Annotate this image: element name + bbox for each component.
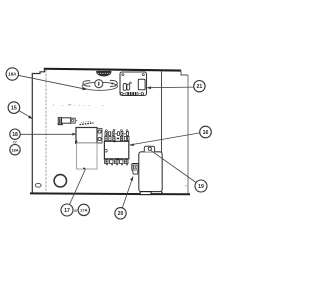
callout 18A [10,145,20,155]
transformer 17 terminal strip [97,128,102,143]
part 19 top tab [144,146,154,152]
leader 16A [18,75,86,89]
transformer 17 upper box [76,128,97,144]
wing fastener right clamp [110,80,117,86]
panel hole [54,175,66,187]
relay 16 top screw heads [106,129,128,131]
svg-text:18A: 18A [11,147,18,152]
svg-text:17A: 17A [80,207,87,212]
svg-text:or: or [74,208,78,213]
callout 18 [10,129,20,139]
leader 20 [122,177,133,208]
panel bottom edge [30,192,190,195]
svg-text:19: 19 [198,184,204,190]
callout 15 [8,102,20,114]
leader 17 [70,169,86,204]
pcb 21 hole right [142,74,144,76]
panel inner right fold line [161,71,163,194]
relay 16 top terminal row B [105,136,129,140]
panel right edge [187,75,189,194]
callout 16A [6,68,18,80]
label squiggle above transformer [80,123,94,125]
relay 16 main box [104,141,128,159]
scan specks [53,104,187,186]
pcb 21 capacitor [123,84,126,91]
svg-text:16: 16 [203,130,209,136]
svg-text:20: 20 [118,211,124,217]
callout 17 [61,204,73,216]
wing fastener left clamp [83,81,91,86]
callout 16 [200,126,212,138]
transformer 17 lower box [77,143,98,169]
small switch assembly [58,117,61,124]
callout 19 [195,180,207,192]
panel top-right step [181,71,188,76]
svg-text:15: 15 [11,106,17,112]
leader 15 [19,111,32,119]
panel inner left fold line [45,70,47,193]
leader 16 [130,133,200,145]
flange slot [35,183,41,187]
panel top edge [44,68,181,72]
pcb 21 relay square [138,79,145,89]
leader 21 [147,86,194,89]
relay 16 top terminal row A [105,132,129,136]
wing fastener ellipse [82,82,117,90]
leader 18 [20,133,74,135]
clip 20 [132,164,139,171]
svg-text:17: 17 [64,208,70,214]
panel left flange edge with step [32,70,44,193]
bushing on top edge [96,71,111,77]
callout 17A [78,204,89,215]
pcb 21 hole left [122,74,124,76]
relay 16 bottom terminal row [105,160,128,164]
leader 19 [150,150,196,182]
pcb 21 board [120,72,147,96]
callout 21 [194,81,205,92]
part 19 bottom foot [140,192,151,195]
part 19 box [139,152,162,192]
pcb 21 terminal row [121,93,124,96]
svg-text:16A: 16A [8,72,17,77]
part 19 right edge to bottom [161,192,163,194]
callout 20 [115,208,126,219]
svg-text:or: or [13,140,17,145]
svg-text:21: 21 [197,84,203,90]
svg-text:18: 18 [12,132,18,138]
wing fastener center screw [95,80,103,88]
